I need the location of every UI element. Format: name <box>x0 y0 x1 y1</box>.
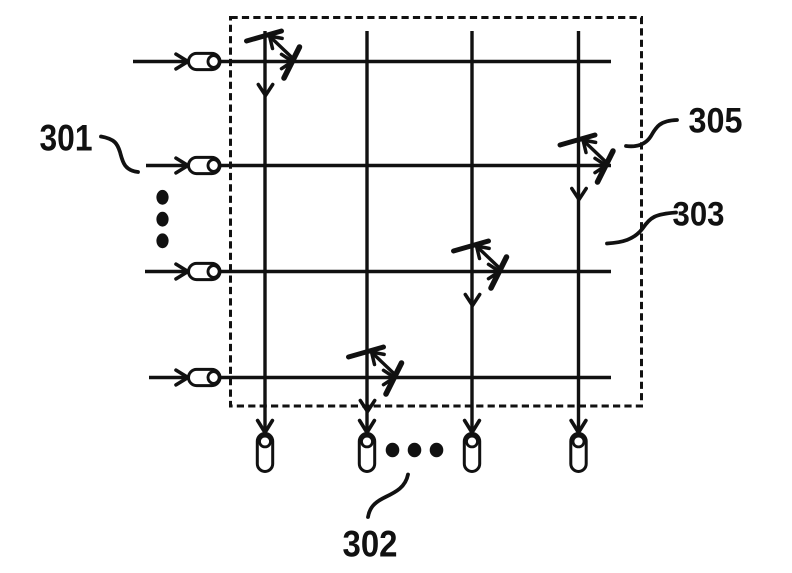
tilting mirror module M2 at row/col intersection <box>560 135 613 200</box>
tilting mirror module M1 at row/col intersection <box>247 31 300 96</box>
input collimator row 4 (301 group) <box>189 369 221 385</box>
mirror M4 tilt arrowhead <box>372 352 385 365</box>
output arrowhead column 4 <box>571 421 586 433</box>
mirror M4 tilt arrow shaft <box>374 355 396 376</box>
wire: output column 4 vertical line <box>577 31 580 430</box>
output collimator column 1 (302 group) <box>257 434 272 472</box>
wire: output column 3 vertical line <box>470 31 473 430</box>
input collimator row 1 (301 group) <box>189 53 221 69</box>
output arrowhead column 3 <box>465 421 480 433</box>
beam arrowhead (horizontal) at M2 <box>595 158 606 172</box>
mirror M1 position B (tilted) <box>284 47 300 78</box>
wire: input row 4 horizontal line <box>149 376 189 379</box>
dashed switch-matrix enclosure 303 <box>231 18 642 407</box>
svg-text:305: 305 <box>689 102 743 141</box>
mirror M3 tilt arrow shaft <box>479 249 501 270</box>
mirror M1 position A (flat) <box>247 31 282 41</box>
mirror M2 tilt arrowhead <box>583 140 596 153</box>
beam arrowhead (downward) at M3 <box>465 295 479 306</box>
label 301 leader line <box>101 137 138 173</box>
beam arrowhead (horizontal) at M3 <box>489 264 500 278</box>
mirror M1 tilt arrow shaft <box>272 39 294 60</box>
beam arrowhead (horizontal) at M1 <box>282 54 293 68</box>
input arrowhead row 1 <box>176 54 188 69</box>
mirror M3 position A (flat) <box>454 241 489 251</box>
mirror M4 position A (flat) <box>349 347 384 357</box>
svg-text:301: 301 <box>40 118 93 159</box>
svg-text:302: 302 <box>343 524 398 565</box>
output arrowhead column 1 <box>258 421 273 433</box>
input collimator row 3 (301 group) <box>189 263 221 279</box>
wire: output column 1 vertical line <box>263 31 266 430</box>
wire: input row 2 horizontal line <box>146 164 189 167</box>
wire: output column 2 vertical line <box>365 31 368 430</box>
input arrowhead row 3 <box>176 264 188 279</box>
mirror M4 position B (tilted) <box>386 363 402 394</box>
mirror M3 tilt arrowhead <box>477 246 490 259</box>
input arrowhead row 2 <box>176 158 188 173</box>
label 302 leader line <box>368 475 408 518</box>
wire: input row 1 horizontal line <box>133 60 189 63</box>
label 305 leader line <box>626 120 677 146</box>
output collimator column 2 (302 group) <box>359 434 374 472</box>
beam arrowhead (downward) at M4 <box>360 401 374 412</box>
label 303 leader line <box>607 213 676 244</box>
tilting mirror module M4 at row/col intersection <box>349 347 402 412</box>
input collimator row 2 (301 group) <box>189 157 221 173</box>
input arrowhead row 4 <box>176 370 188 385</box>
output arrowhead column 2 <box>360 421 375 433</box>
mirror M2 position A (flat) <box>560 135 595 145</box>
mirror M1 tilt arrowhead <box>270 36 283 49</box>
wire: input row 3 horizontal line <box>145 270 189 273</box>
beam arrowhead (downward) at M2 <box>572 189 586 200</box>
mirror M2 tilt arrow shaft <box>586 143 608 164</box>
svg-text:303: 303 <box>673 196 725 234</box>
output collimator column 3 (302 group) <box>464 434 479 472</box>
output collimator column 4 (302 group) <box>571 434 586 472</box>
beam arrowhead (horizontal) at M4 <box>384 370 395 384</box>
ellipsis dots (left, between inputs) <box>156 190 168 205</box>
beam arrowhead (downward) at M1 <box>258 85 272 96</box>
tilting mirror module M3 at row/col intersection <box>454 241 507 306</box>
mirror M3 position B (tilted) <box>491 257 507 288</box>
mirror M2 position B (tilted) <box>598 151 614 182</box>
ellipsis dots (bottom, between outputs) <box>386 443 400 458</box>
